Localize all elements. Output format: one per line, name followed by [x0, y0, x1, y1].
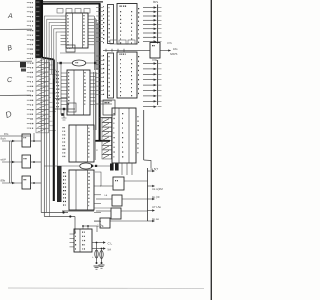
wire gap v4 [49, 62, 51, 217]
svg-text:4s 5(T: 4s 5(T [150, 167, 158, 171]
wires U8 top left 2 [96, 103, 112, 105]
arrow U5 DA [103, 247, 106, 249]
tie-down mark [62, 110, 67, 120]
IC U5 left pin stubs [70, 234, 75, 247]
IC U6 part label [120, 6, 121, 7]
IC U1 body [66, 13, 88, 48]
wire U5 out DA [92, 248, 105, 250]
cap C2 lead [101, 249, 103, 264]
IC U3 body [69, 125, 94, 162]
wire U8 rail to bus [144, 160, 151, 168]
svg-text:80b: 80b [1, 179, 6, 183]
wire to U5 [74, 217, 76, 235]
zone divider B/C [0, 60, 32, 62]
junction U5 top a [82, 225, 84, 227]
IC U7 body [117, 52, 137, 98]
IC U5 internal rows [75, 232, 85, 250]
junction J1 left [60, 62, 62, 64]
IC U1 pin numbers [67, 15, 84, 46]
svg-text:N0PS: N0PS [170, 52, 177, 56]
wire gap v1 [40, 58, 42, 213]
IC U5 body [74, 229, 92, 252]
IC U4 bottom edge line [62, 210, 94, 212]
junction J2 a [91, 165, 93, 167]
IC U2 col divider 2 [82, 70, 84, 115]
IC U3 left pin labels [63, 127, 66, 157]
wires U1 right verticals [94, 16, 98, 70]
connector P1 pin ticks [27, 3, 30, 129]
junction U5 top b [87, 225, 89, 227]
junction J1 right [94, 62, 96, 64]
wire under U1 [60, 52, 95, 54]
IC U6 latch strip labels [109, 7, 110, 42]
IC U2 pin numbers [68, 72, 86, 105]
junction dot loop a [62, 211, 64, 213]
wire G2 in [96, 198, 112, 200]
Q1 inner mark [152, 45, 153, 46]
input gate row 3 [1, 176, 42, 189]
wires U8 top left [100, 100, 112, 102]
wire U2 left vertical [60, 63, 62, 115]
IC U7 part label [120, 54, 121, 55]
junction J2 b [95, 165, 97, 167]
wires to U7 left [96, 56, 103, 95]
svg-text:w5P: w5P [1, 158, 7, 162]
wire Q1 output [160, 50, 171, 52]
bus vertical U6 outputs [157, 5, 159, 44]
IC U8 col divider 2 [128, 108, 130, 163]
wire U2 left horizontal a [55, 98, 67, 100]
cap C1 lead [96, 243, 98, 264]
wire G1 out [124, 180, 148, 182]
IC U8 body [112, 108, 136, 163]
svg-text:A: A [7, 13, 13, 20]
IC U2 right pin stubs [90, 73, 96, 105]
wire gap v5 [56, 62, 58, 166]
input gate row 2 [1, 155, 42, 168]
IC U8 col divider 1 [118, 108, 120, 163]
wire U2 left horizontal b [55, 108, 75, 110]
IC U2 col divider 1 [73, 70, 75, 115]
cap C1 dot [96, 262, 98, 264]
IC U7 right pin numbers [138, 56, 139, 94]
svg-text:+a: +a [104, 193, 108, 197]
IC U4 right pin numbers [88, 173, 89, 207]
junction U2 left [63, 108, 65, 110]
sheet right edge [210, 0, 212, 300]
IC U6 bottom pin boxes [110, 40, 135, 44]
IC U3 col divider 1 [75, 125, 77, 162]
wire loop bottom 2 [44, 216, 75, 218]
svg-text:5A: 5A [108, 248, 112, 252]
IC U1 top pin boxes [57, 9, 90, 14]
heavy bus vertical mid [53, 60, 55, 202]
IC U6 output arrows [143, 6, 157, 42]
IC U1 right pin stubs [88, 16, 94, 45]
wires U8 bottom verticals [122, 163, 132, 175]
IC U7 bottom label marks [105, 102, 106, 103]
wire G1 in [100, 185, 113, 187]
IC U3 right pin numbers [88, 128, 89, 158]
IC U8 internal pin grid [114, 113, 124, 158]
IC U1 bottom label [66, 48, 69, 49]
wire G3 out [121, 210, 148, 212]
svg-text:8Ts: 8Ts [4, 132, 9, 136]
connector P1 upper shaded body [35, 0, 41, 58]
bus U6 stub rights [158, 8, 162, 42]
IC U2 body [67, 70, 90, 115]
wire right bus long [94, 18, 96, 160]
IC U6 right pin numbers [138, 8, 139, 43]
svg-text:C L: C L [108, 242, 113, 246]
gate row1 up wire [33, 133, 35, 141]
input gate row 1 [1, 132, 42, 147]
wires connector to U1 [44, 16, 60, 83]
stamp mark [20, 62, 26, 68]
wire to J1 left [57, 62, 72, 64]
wire loop bottom 1 [41, 212, 68, 214]
heavy bus vertical right [99, 4, 101, 141]
wire U5 top drop [96, 226, 98, 232]
jumper oval J1 [72, 60, 86, 66]
flip-flop Q1 box [150, 43, 160, 59]
IC U4 right pin stubs [94, 186, 101, 221]
IC U6 left pin numbers [103, 6, 104, 43]
connector P1 upper right rail [42, 0, 44, 58]
IC U6 body [117, 4, 137, 45]
junction U2 bottom [61, 113, 64, 116]
gate G3 box [111, 208, 121, 219]
IC U4 dark pin strip [57, 166, 62, 202]
cap C1 body [95, 250, 98, 258]
svg-text:A7 L5o: A7 L5o [152, 205, 162, 209]
junction block b [115, 164, 119, 171]
svg-text:8o so: 8o so [152, 217, 159, 221]
IC U4 left pin labels [63, 172, 66, 206]
heavy bus vertical left upper [41, 0, 43, 58]
cap C2 dot [101, 262, 103, 264]
wire U5 out CL [92, 242, 105, 244]
ground G-C2 [99, 265, 105, 268]
wire U4-G rows [94, 207, 111, 209]
wires U2 right verticals [94, 72, 96, 130]
svg-text:As s(2M: As s(2M [152, 187, 163, 191]
input rows bundle line a [9, 141, 11, 183]
IC U7 internal pin grid [120, 59, 132, 96]
J1 label [76, 62, 77, 63]
IC U8 right pin numbers [138, 116, 139, 153]
jumper oval J2 [80, 163, 93, 169]
IC U7 output arrows [143, 62, 157, 108]
IC U6 left latch strip [108, 5, 114, 44]
wire U5 top stub a [82, 226, 84, 229]
gate G1 box [113, 177, 124, 190]
IC U7 left latch strip [108, 53, 114, 98]
connector P1 lower pin cells [36, 58, 56, 133]
zone divider D end [0, 135, 31, 137]
IC U4 body [69, 170, 94, 210]
connector P1 upper body texture [36, 2, 39, 56]
svg-text:8a/s: 8a/s [1, 137, 7, 141]
wire G3 in [96, 210, 111, 212]
wire G4 out [110, 220, 148, 222]
IC U1 col divider 2 [81, 13, 83, 48]
gate G2 box [112, 195, 122, 206]
IC U1 left pin stubs [61, 16, 67, 45]
IC U5 col divider [79, 229, 81, 252]
svg-text:8o (3I: 8o (3I [152, 195, 160, 199]
sheet bottom edge [8, 287, 204, 290]
bus U7 stub rights [158, 64, 162, 107]
wire from J1 right [86, 62, 97, 64]
IC U8 left hatch cells [102, 118, 112, 159]
gate output arrows [148, 170, 156, 222]
wire gap v3 [46, 60, 48, 213]
IC U2 outside pin labels [56, 71, 59, 107]
wire U4-G1 [95, 172, 101, 186]
svg-text:10s: 10s [173, 47, 178, 51]
junction block a [110, 164, 114, 171]
arrow U5 CL [103, 241, 106, 243]
heavy bus top horizontal [43, 3, 101, 5]
cap C2 body [100, 251, 103, 259]
IC U6 internal pin grid [120, 11, 132, 44]
Q1 output arrow [168, 49, 171, 51]
IC U8 cells top line [99, 117, 112, 119]
IC U1 col divider 1 [72, 13, 74, 48]
sheet top border line [39, 1, 103, 3]
wire to J2 left [44, 165, 79, 167]
heavy bus jog [42, 58, 54, 60]
zone divider C/D [0, 94, 31, 96]
wires to U6 left [96, 8, 103, 42]
IC U4 col divider 1 [75, 170, 77, 210]
wire G4 in [94, 220, 100, 222]
IC U7 latch strip labels [109, 56, 110, 96]
junction U5 out a [96, 242, 98, 244]
junction dot loop b [69, 215, 71, 217]
IC U1 bottom label box [66, 45, 75, 52]
IC U2 left pin stubs [61, 73, 67, 105]
IC U7 bottom label box [103, 100, 115, 115]
wire U5 top link [83, 225, 97, 227]
svg-text:V?s: V?s [167, 41, 172, 45]
wire G2 out [122, 198, 148, 200]
heavy bus tee [96, 140, 111, 142]
gate bus vertical [147, 168, 149, 221]
wire gap v2 [43, 60, 45, 217]
bus vertical U7 outputs [157, 60, 159, 105]
IC U4 col divider 2 [86, 170, 88, 210]
wire U5 top stub b [87, 226, 89, 229]
ground G-C1 [94, 266, 100, 269]
IC U7 left pin numbers [103, 55, 104, 95]
svg-text:V9s: V9s [152, 58, 158, 62]
IC U8 right rail [143, 110, 145, 160]
junction U5 out b [101, 248, 103, 250]
IC U2 inner label box [68, 103, 76, 112]
wire from J2 right [92, 165, 112, 167]
zone divider A/B [0, 28, 32, 30]
svg-text:8Ps: 8Ps [153, 0, 159, 4]
gate G1 inner [114, 180, 117, 181]
input rows bundle line b [10, 141, 12, 183]
IC U3 col divider 2 [86, 125, 88, 162]
gate G4 box [100, 218, 110, 228]
wire into Q1 [103, 49, 150, 52]
connector P1 pin labels [30, 2, 33, 129]
